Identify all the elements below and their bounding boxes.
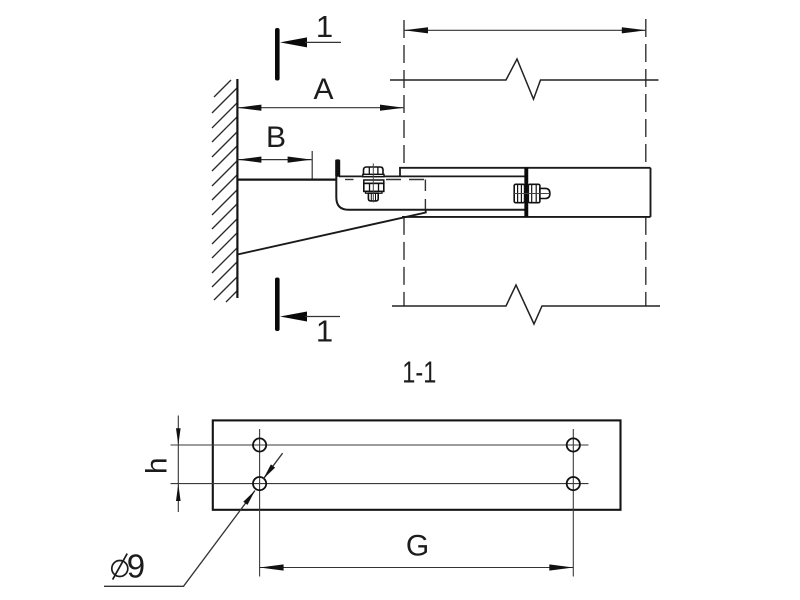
wall line — [236, 79, 238, 298]
right clamp plate (thick) — [524, 168, 528, 217]
tray rail top edge — [399, 167, 650, 169]
hidden edge of console plate (dashed) — [345, 179, 354, 181]
console top plate edge — [237, 179, 336, 181]
tray top edge with break symbol — [390, 59, 659, 99]
hole column centerline right — [572, 429, 574, 577]
clamp top edge — [339, 175, 525, 177]
bolt U1 washer under head — [363, 174, 384, 176]
hole bottom-right — [567, 477, 580, 490]
svg-text:1-1: 1-1 — [402, 354, 436, 389]
section mark 1 lower — [275, 278, 340, 349]
leader line for ø9 — [104, 453, 283, 586]
clamp / console outer contour with fillet — [336, 160, 524, 210]
bolt U1 head — [364, 167, 384, 175]
section mark 1 upper — [275, 9, 341, 81]
tray width hidden line right (dashed) — [645, 19, 647, 168]
bolt U2 thread stub — [540, 188, 550, 198]
dimension A — [237, 73, 404, 111]
hidden vertical edge at arm end (dashed) — [424, 180, 426, 213]
bolt U1 nut — [364, 183, 384, 191]
gusset diagonal — [237, 210, 425, 255]
hole top-left — [253, 438, 266, 451]
bolt U2 centerline — [513, 193, 551, 195]
tray width hidden line left (dashed) — [403, 20, 405, 168]
hole bottom-left — [253, 477, 266, 490]
tray width hidden line left lower (dashed) — [403, 217, 405, 306]
wall hatching — [212, 80, 237, 302]
dimension G — [260, 530, 574, 571]
svg-text:1: 1 — [316, 313, 333, 348]
svg-text:9: 9 — [127, 548, 145, 585]
top dimension line (unlabeled) — [404, 27, 646, 33]
bolt U1 washer under plate — [364, 180, 384, 183]
svg-text:G: G — [406, 530, 429, 563]
svg-text:B: B — [266, 121, 286, 154]
hole column centerline left — [259, 429, 261, 577]
hole row centerline lower — [171, 483, 589, 485]
svg-text:A: A — [313, 73, 333, 106]
dimension h — [141, 416, 181, 513]
bolt U1 centerline — [372, 164, 374, 203]
bolt U2 left nut — [514, 184, 524, 202]
bolt U1 stud end — [368, 193, 378, 201]
svg-text:1: 1 — [316, 9, 333, 44]
hole top-right — [567, 438, 580, 451]
clamp vertical hook (thick) — [335, 159, 340, 176]
hole diameter label ø9 — [112, 548, 145, 585]
bolt U1 lock washer — [366, 191, 383, 193]
tray rail right edge — [650, 168, 652, 217]
hole row centerline upper — [171, 444, 589, 446]
dimension B — [237, 121, 312, 179]
tray width hidden line right lower (dashed) — [645, 217, 647, 306]
svg-text:h: h — [141, 457, 174, 474]
tray rail step — [399, 168, 401, 177]
bolt U2 right nut — [528, 184, 540, 202]
tray bottom edge with break symbol — [392, 285, 660, 324]
tray rail bottom edge — [402, 216, 651, 218]
base plate rectangle — [213, 420, 621, 509]
